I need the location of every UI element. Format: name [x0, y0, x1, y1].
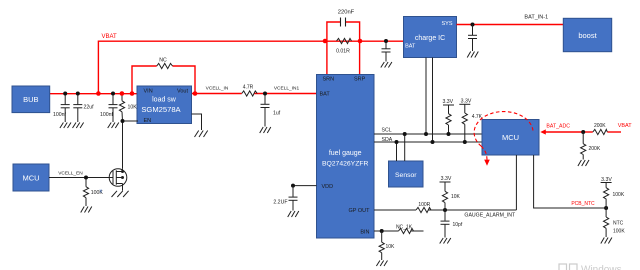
resistor 200K (shunt) [581, 132, 586, 160]
wire SCL [374, 133, 482, 135]
watermark [559, 264, 622, 270]
svg-text:fuel gauge: fuel gauge [329, 150, 362, 157]
junction dot VDD [291, 184, 295, 188]
svg-text:VDD: VDD [322, 184, 334, 190]
capacitor at SYS [468, 25, 477, 52]
ground under 10pf [440, 238, 451, 244]
svg-text:VCELL_IN: VCELL_IN [206, 86, 229, 92]
svg-text:3.3V: 3.3V [442, 99, 453, 105]
capacitor 2.2UF [289, 186, 298, 211]
ground under BIN 10K [376, 261, 387, 267]
wire BAT_ADC [544, 131, 622, 133]
block BUB [12, 86, 50, 113]
annotation arrowhead BAT_ADC [540, 129, 546, 134]
svg-text:100K: 100K [613, 228, 625, 234]
svg-text:Vout: Vout [177, 89, 188, 95]
svg-text:10K: 10K [386, 244, 396, 250]
svg-text:BAT_IN-1: BAT_IN-1 [524, 15, 548, 21]
capacitor 10pf [441, 210, 450, 238]
wire VDD [293, 185, 317, 187]
ground under transistor [112, 191, 129, 197]
wire 220nF bypass loop [327, 22, 360, 41]
svg-text:10K: 10K [128, 105, 138, 111]
capacitor 22uf [73, 94, 82, 123]
svg-text:PCB_NTC: PCB_NTC [571, 201, 595, 207]
svg-text:Windows: Windows [581, 265, 622, 270]
wire Vout to ground [192, 114, 202, 130]
block Sensor [389, 161, 424, 187]
ground at charge IC BAT cap [381, 62, 392, 68]
svg-text:VBAT: VBAT [102, 34, 118, 40]
power 3.3V (NTC divider) [601, 183, 612, 188]
svg-text:10pf: 10pf [453, 222, 463, 228]
transistor Q1 (NMOS load switch driver) [109, 169, 127, 191]
resistor 100K (upper) [603, 188, 608, 208]
ground under NTC [601, 238, 612, 244]
svg-text:SYS: SYS [441, 21, 452, 27]
wire SRP sense [359, 41, 361, 75]
svg-text:NC_1K: NC_1K [396, 225, 413, 231]
resistor NC (horizontal zigzag) [157, 63, 173, 68]
power 3.3V pullup SCL [443, 105, 454, 134]
svg-text:BUB: BUB [23, 95, 38, 104]
capacitor 220nF [341, 18, 346, 27]
ground at load sw [195, 131, 208, 138]
svg-text:BAT: BAT [320, 92, 331, 98]
svg-text:SCL: SCL [382, 128, 392, 134]
ground under 22uf [73, 123, 84, 129]
capacitor 100nf (first) [61, 94, 70, 123]
svg-text:Sensor: Sensor [395, 172, 417, 179]
svg-text:NC: NC [159, 58, 167, 64]
junction dot VCELL_EN node [84, 176, 88, 180]
block load sw SGM2578A [137, 86, 192, 124]
wire PCB_NTC from MCU [534, 155, 607, 208]
resistor NTC 100K (lower) [603, 208, 608, 237]
svg-text:1uf: 1uf [273, 111, 281, 117]
junction dot BAT_ADC [581, 130, 585, 134]
ground under 2.2UF [288, 211, 299, 217]
junction dot BIN [380, 229, 384, 233]
svg-text:charge IC: charge IC [415, 35, 445, 42]
resistor 10K (rail to EN node) [119, 94, 124, 122]
svg-text:4.7R: 4.7R [243, 85, 254, 91]
svg-text:BIN: BIN [360, 229, 369, 235]
svg-text:0.01R: 0.01R [336, 49, 350, 55]
block charge IC [404, 17, 457, 58]
ground under second 100nf [108, 123, 119, 129]
wire SRN sense [326, 41, 328, 75]
wire SDA [374, 141, 482, 143]
annotation red dashed loop [474, 112, 533, 161]
resistor 200K (series) [593, 129, 608, 134]
svg-text:BAT: BAT [405, 43, 416, 49]
wire SYS red rail [457, 24, 564, 26]
wire VBAT top rail [98, 41, 403, 93]
wire BIN [374, 230, 424, 232]
junction dot SYS [471, 23, 475, 27]
block fuel gauge BQ27426YZFR [317, 75, 375, 239]
svg-text:VBAT: VBAT [618, 123, 633, 129]
block MCU (left) [13, 164, 49, 191]
capacitor at charge IC BAT pin [382, 41, 391, 62]
ground under first 100nf [60, 123, 71, 129]
svg-text:3.3V: 3.3V [601, 177, 612, 183]
svg-text:VIN: VIN [144, 89, 153, 95]
svg-text:load sw: load sw [152, 97, 177, 104]
svg-text:GP OUT: GP OUT [349, 208, 371, 214]
junction dots top rail [323, 39, 328, 44]
svg-text:SRN: SRN [323, 77, 335, 83]
svg-text:VCELL_IN1: VCELL_IN1 [274, 86, 300, 92]
svg-text:VCELL_EN: VCELL_EN [58, 171, 83, 177]
block MCU (right) [482, 120, 539, 156]
svg-text:MCU: MCU [22, 174, 39, 183]
svg-text:SDA: SDA [382, 137, 393, 143]
svg-text:EN: EN [144, 118, 152, 124]
capacitor 1uf [261, 94, 270, 127]
resistor NC_1K [399, 228, 414, 233]
wire main battery rail (VCELL) [50, 93, 317, 95]
wire EN net (10K, EN pin, FET drain) [123, 121, 139, 169]
wire MCU alarm pin [515, 155, 517, 210]
svg-text:100nf: 100nf [100, 112, 114, 118]
resistor 100R [416, 207, 431, 212]
ground under 100K [81, 207, 92, 213]
wire sensor SDA [396, 142, 398, 161]
wire GP OUT [374, 209, 516, 211]
svg-text:SRP: SRP [354, 77, 366, 83]
svg-text:3.3V: 3.3V [441, 176, 452, 182]
resistor 0.01R sense [337, 38, 352, 43]
power 3.3V pullup GP OUT (10K) [440, 182, 451, 210]
junction dot NTC node [604, 206, 608, 210]
svg-text:3.3V: 3.3V [461, 98, 472, 104]
svg-text:200K: 200K [594, 123, 606, 129]
svg-text:220nF: 220nF [338, 10, 355, 16]
capacitor 100nf (second) [109, 94, 118, 123]
wire I2C from charge IC [426, 58, 433, 143]
svg-text:BAT_ADC: BAT_ADC [546, 124, 570, 130]
junction dots SDA [395, 140, 399, 144]
svg-text:22uf: 22uf [84, 105, 95, 111]
svg-text:GAUGE_ALARM_INT: GAUGE_ALARM_INT [464, 213, 516, 219]
wire NC bypass loop [132, 66, 195, 94]
svg-text:BQ27426YZFR: BQ27426YZFR [322, 161, 369, 168]
ground under 200K [578, 160, 589, 166]
svg-text:2.2UF: 2.2UF [273, 200, 287, 206]
svg-text:x: x [100, 189, 103, 195]
junction dot GP OUT [443, 208, 447, 212]
svg-text:SGM2578A: SGM2578A [141, 105, 181, 114]
resistor 100K (VCELL_EN pulldown) [83, 178, 88, 207]
svg-text:100nf: 100nf [53, 112, 67, 118]
svg-text:100K: 100K [613, 192, 625, 198]
ground at SYS cap [467, 52, 478, 58]
svg-text:boost: boost [578, 31, 597, 40]
junction dots on battery rail [63, 92, 67, 96]
resistor 10K (BIN pulldown) [379, 231, 384, 260]
annotation arrowhead down [484, 160, 490, 166]
block boost [563, 18, 611, 51]
svg-text:10K: 10K [451, 194, 461, 200]
wire sensor SCL [404, 134, 406, 161]
ground under 1uf [260, 127, 271, 133]
svg-text:100R: 100R [418, 202, 430, 208]
svg-text:MCU: MCU [502, 133, 519, 142]
resistor 4.7R [242, 91, 258, 96]
svg-text:200K: 200K [589, 146, 601, 152]
svg-text:NTC: NTC [613, 220, 624, 226]
junction dots SCL [403, 132, 407, 136]
wire VCELL_EN [49, 177, 113, 179]
power 3.3V pullup SDA (4.7K) [459, 104, 470, 142]
junction dot EN node [121, 119, 125, 123]
